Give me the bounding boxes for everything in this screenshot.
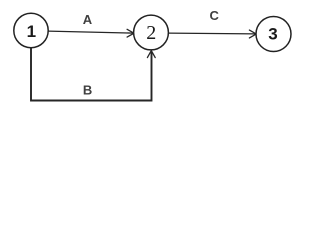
svg-text:1: 1: [27, 22, 36, 41]
svg-text:B: B: [83, 83, 92, 98]
svg-text:2: 2: [146, 22, 156, 44]
svg-text:A: A: [83, 12, 93, 27]
wire B (edge from node 1 down, across, up to node 2): [31, 48, 155, 101]
node 2: [134, 15, 169, 50]
wire A (edge from node 1 to node 2): [48, 29, 134, 37]
wire C (edge from node 2 to node 3): [169, 30, 257, 38]
node 3: [256, 17, 291, 52]
svg-text:C: C: [210, 8, 220, 23]
svg-text:3: 3: [268, 25, 277, 44]
node 1: [14, 13, 48, 47]
